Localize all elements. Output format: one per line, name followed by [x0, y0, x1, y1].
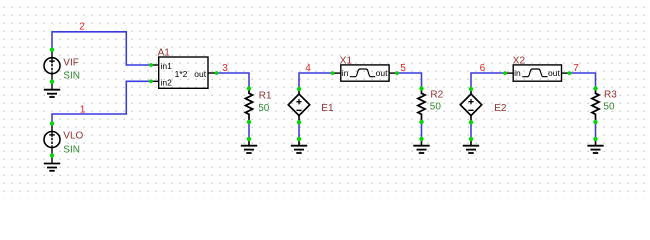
- svg-text:VIF: VIF: [63, 57, 79, 68]
- svg-text:R2: R2: [430, 89, 443, 100]
- svg-text:X1: X1: [340, 56, 353, 67]
- svg-text:X2: X2: [513, 56, 526, 67]
- svg-text:out: out: [194, 69, 206, 79]
- svg-text:50: 50: [258, 103, 270, 114]
- svg-text:2: 2: [79, 22, 85, 33]
- svg-text:SIN: SIN: [63, 70, 80, 81]
- svg-text:1: 1: [80, 105, 86, 116]
- svg-text:E1: E1: [321, 103, 334, 114]
- svg-text:3: 3: [222, 63, 228, 74]
- svg-text:1*2: 1*2: [175, 69, 188, 79]
- svg-text:4: 4: [305, 63, 311, 74]
- svg-text:7: 7: [573, 63, 579, 74]
- svg-text:in1: in1: [161, 61, 173, 71]
- svg-text:50: 50: [603, 102, 615, 113]
- svg-text:50: 50: [430, 102, 442, 113]
- svg-text:VLO: VLO: [63, 130, 83, 141]
- svg-text:E2: E2: [494, 103, 507, 114]
- svg-text:R1: R1: [259, 91, 272, 102]
- svg-text:6: 6: [480, 63, 486, 74]
- svg-text:A1: A1: [158, 47, 171, 58]
- svg-text:R3: R3: [604, 90, 617, 101]
- svg-text:SIN: SIN: [63, 144, 80, 155]
- svg-text:in2: in2: [161, 77, 173, 87]
- svg-text:5: 5: [400, 63, 406, 74]
